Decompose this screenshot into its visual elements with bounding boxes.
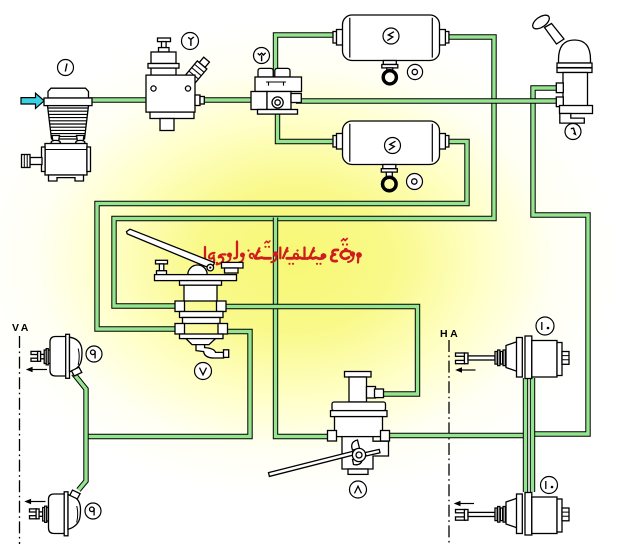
number 2 unloader valve xyxy=(182,33,199,50)
wire tank1 right port to foot-valve upper-left port (rear circuit supply) xyxy=(114,37,494,306)
number 10 lower rear chamber xyxy=(541,477,558,494)
actuation arrow (upper rear chamber) xyxy=(455,367,475,373)
actuation arrow (lower front chamber) xyxy=(24,499,45,505)
wire foot-valve lower-right port to front axle line xyxy=(86,332,250,437)
wire protection-valve top to tank1 left port xyxy=(276,35,335,78)
wire protection-valve bottom to tank2 left port xyxy=(278,103,335,142)
svg-text:VA: VA xyxy=(12,322,31,334)
wire rear chambers service vertical xyxy=(523,378,528,492)
actuation arrow (upper front chamber) xyxy=(26,367,47,373)
watermark text (red arabic) xyxy=(205,239,362,266)
front brake chamber 9 (lower) xyxy=(30,490,81,536)
compressor 1 xyxy=(22,88,93,181)
hand brake valve 6 xyxy=(530,12,592,123)
number 3 protection valve xyxy=(254,48,270,64)
wire tank2 right port to foot-valve lower-left port (front circuit supply) xyxy=(97,142,467,330)
number 6 hand valve xyxy=(565,124,581,140)
HA axle dash-dot line xyxy=(448,340,450,544)
number 10 upper rear chamber xyxy=(536,317,554,335)
wire rear chambers spring vertical xyxy=(530,378,535,492)
air reservoir 4 (upper) xyxy=(333,15,449,61)
word mikanika xyxy=(280,248,326,265)
wire compressor outlet to unloader valve xyxy=(89,97,148,102)
rear spring brake chamber 10 (lower) xyxy=(456,493,570,536)
wire hand-valve upper port to rear spring-brake line xyxy=(533,88,589,434)
air reservoir 4 (lower) xyxy=(333,121,449,165)
svg-text:HA: HA xyxy=(440,328,460,340)
wire linking both front brake chambers xyxy=(74,374,87,491)
number 8 load sensing valve xyxy=(350,481,367,498)
wire junction at x275 down to LSV left port xyxy=(276,218,331,437)
wire protection valve right port to hand-valve lower port xyxy=(296,98,557,103)
number 9 lower front chamber xyxy=(85,503,101,519)
inlet arrow (cyan) into compressor xyxy=(21,93,44,108)
unloader/regulator valve 2 xyxy=(146,38,211,131)
number 9 upper front chamber xyxy=(86,346,102,362)
load sensing valve 8 xyxy=(269,372,390,477)
VA axle label xyxy=(12,322,31,334)
front brake chamber 9 (upper) xyxy=(31,334,82,378)
number 7 foot valve xyxy=(195,363,212,380)
word wa-teknologia xyxy=(205,241,278,266)
wire foot-valve upper-right port to LSV control pipe xyxy=(224,307,418,395)
actuation arrow (lower rear chamber) xyxy=(454,501,474,507)
number 1 compressor xyxy=(58,60,74,76)
drain valve 5 (lower) xyxy=(381,165,397,191)
number circles xyxy=(58,28,582,519)
word mawqi xyxy=(331,239,362,263)
VA axle dash-dot line xyxy=(19,336,21,544)
rear spring brake chamber 10 (upper) xyxy=(456,336,570,379)
foot brake valve 7 xyxy=(127,229,244,358)
drain valve 5 (upper) xyxy=(382,61,398,84)
HA axle label xyxy=(440,328,460,340)
wire LSV right port to rear chambers service line xyxy=(387,433,528,438)
number 5 lower drain xyxy=(407,174,423,190)
wire unloader valve to protection valve xyxy=(203,97,253,102)
number 5 upper drain xyxy=(407,64,422,79)
four-circuit protection valve 3 xyxy=(251,68,302,114)
number 4 lower reservoir xyxy=(385,138,401,154)
number 4 upper reservoir xyxy=(383,28,399,44)
